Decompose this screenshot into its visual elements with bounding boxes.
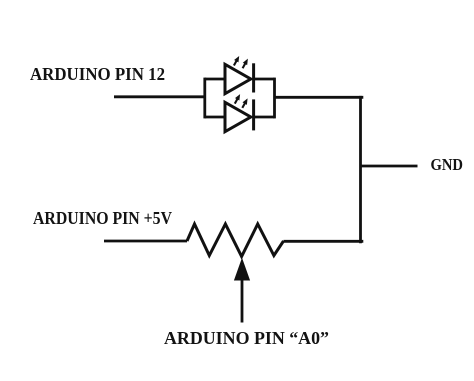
wire left anode rail of LED pair (203, 78, 206, 119)
wire right vertical bus (359, 96, 362, 243)
svg-text:ARDUINO PIN “A0”: ARDUINO PIN “A0” (164, 328, 329, 348)
wire anode stub to LED D1 (205, 78, 226, 81)
svg-text:GND: GND (431, 155, 464, 174)
wire right cathode rail of LED pair (273, 78, 276, 119)
wire from ARDUINO PIN +5V to potentiometer (104, 240, 187, 243)
LED D1 (top diode triangle, cathode bar, emission arrows) (225, 55, 254, 94)
potentiometer R1 wiper arrow (234, 258, 250, 323)
LED D2 (bottom diode triangle, cathode bar, emission arrows) (225, 93, 254, 132)
wire from LED rail to top-right corner (275, 96, 364, 99)
potentiometer R1 resistive element (zigzag) (187, 224, 284, 257)
wire anode stub to LED D2 (205, 116, 226, 119)
wire cathode of D1 to right rail (254, 78, 275, 81)
wire cathode of D2 to right rail (254, 116, 275, 119)
wire from potentiometer to right vertical bus (284, 240, 364, 243)
svg-text:ARDUINO PIN 12: ARDUINO PIN 12 (30, 64, 165, 84)
wire from ARDUINO PIN 12 to LED anode rail (114, 95, 206, 98)
svg-text:ARDUINO PIN +5V: ARDUINO PIN +5V (33, 208, 172, 228)
wire GND stub (361, 165, 418, 168)
